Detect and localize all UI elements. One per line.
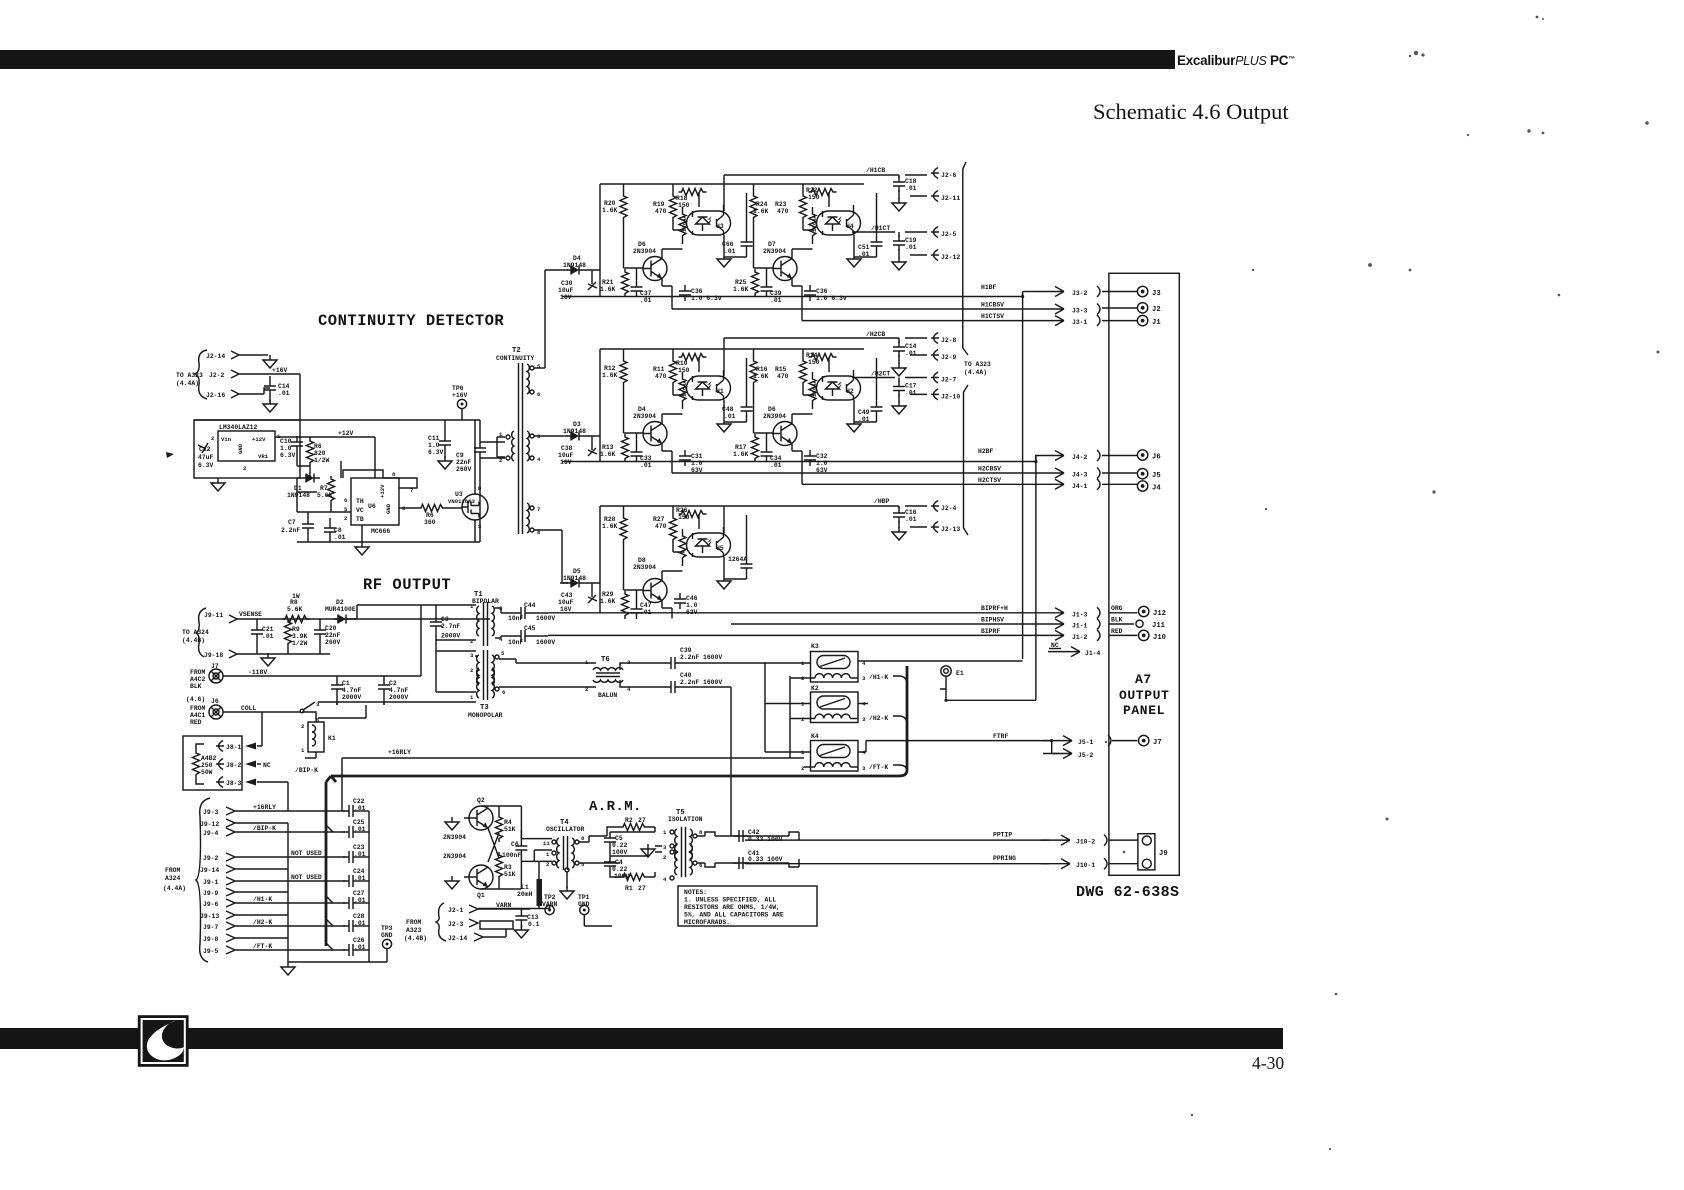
bracket to A323 lower group bbox=[964, 385, 969, 535]
svg-text:J9-13: J9-13 bbox=[200, 913, 219, 920]
svg-text:DWG 62-638S: DWG 62-638S bbox=[1076, 884, 1179, 901]
svg-text:J5-1: J5-1 bbox=[1078, 739, 1094, 746]
svg-text:C28: C28 bbox=[353, 913, 365, 920]
resistor R4 51K bbox=[496, 814, 503, 842]
svg-text:E1: E1 bbox=[956, 670, 964, 677]
ground between C5 C4 bbox=[641, 844, 655, 857]
jack J11 bbox=[1136, 620, 1143, 627]
svg-text:470: 470 bbox=[777, 373, 789, 380]
svg-text:2.2nF 1600V: 2.2nF 1600V bbox=[680, 679, 722, 686]
svg-text:J1-2: J1-2 bbox=[1072, 634, 1088, 641]
svg-text:A323: A323 bbox=[406, 927, 422, 934]
HB driver unit U5 circuitry bbox=[620, 506, 753, 619]
svg-text:6.3V: 6.3V bbox=[428, 449, 444, 456]
svg-text:J2-2: J2-2 bbox=[209, 372, 225, 379]
capacitor C25 .01 bbox=[343, 826, 359, 838]
svg-text:ExcaliburPLUS PC™: ExcaliburPLUS PC™ bbox=[1177, 53, 1295, 68]
resistor R9 3.9K 1/2W bbox=[285, 619, 292, 647]
H1 top rail and left rail wires bbox=[560, 184, 864, 297]
svg-text:C21: C21 bbox=[262, 626, 274, 633]
svg-text:1: 1 bbox=[470, 694, 474, 701]
svg-text:C51: C51 bbox=[858, 244, 870, 251]
svg-text:0.1: 0.1 bbox=[528, 921, 540, 928]
svg-text:1.6K: 1.6K bbox=[733, 286, 749, 293]
svg-text:H2BF: H2BF bbox=[978, 448, 994, 455]
T5 secondary coil bbox=[690, 829, 692, 859]
svg-text:C27: C27 bbox=[353, 890, 365, 897]
svg-text:820: 820 bbox=[314, 450, 326, 457]
svg-text:R16: R16 bbox=[756, 366, 768, 373]
svg-text:C14: C14 bbox=[278, 383, 290, 390]
svg-text:R28: R28 bbox=[604, 516, 616, 523]
svg-text:150: 150 bbox=[808, 194, 820, 201]
transformer T1 core bbox=[484, 602, 488, 646]
wire J2-16 to C14 bbox=[264, 376, 270, 402]
svg-text:Schematic 4.6 Output: Schematic 4.6 Output bbox=[1093, 99, 1289, 124]
svg-text:16V: 16V bbox=[560, 459, 572, 466]
wire /H1CB bbox=[724, 175, 927, 211]
capacitor C18 .01 bbox=[893, 176, 905, 192]
svg-text:/FT-K: /FT-K bbox=[253, 943, 272, 950]
wire T3 secondary to T6 balun bbox=[499, 659, 596, 687]
svg-text:/H2-K: /H2-K bbox=[869, 715, 888, 722]
connector J8-2 bbox=[216, 759, 224, 770]
svg-text:2000V: 2000V bbox=[389, 694, 408, 701]
connector J2-11 bbox=[910, 195, 927, 197]
ground at J2-14 bbox=[262, 354, 268, 356]
svg-text:D2: D2 bbox=[336, 599, 344, 606]
svg-text:R15: R15 bbox=[775, 366, 787, 373]
ground below C14b bbox=[892, 363, 906, 376]
wire K1 pins bbox=[302, 712, 316, 758]
svg-text:R19: R19 bbox=[653, 201, 665, 208]
svg-text:D3: D3 bbox=[573, 421, 581, 428]
svg-text:R2: R2 bbox=[625, 817, 633, 824]
svg-text:1.6K: 1.6K bbox=[600, 286, 616, 293]
wire +16V rail down to box top bbox=[299, 374, 301, 420]
ground below C11 bbox=[438, 456, 452, 469]
svg-text:C49: C49 bbox=[858, 409, 870, 416]
wire T5 secondary staircase output bbox=[697, 832, 799, 867]
svg-text:OSCILLATOR: OSCILLATOR bbox=[546, 826, 585, 833]
connector J8-3 bbox=[216, 777, 224, 788]
svg-text:1264A: 1264A bbox=[681, 215, 688, 232]
svg-text:2N3904: 2N3904 bbox=[633, 248, 656, 255]
svg-text:.01: .01 bbox=[334, 534, 346, 541]
svg-text:2.7nF: 2.7nF bbox=[441, 623, 460, 630]
connector J2-7 bbox=[931, 372, 939, 383]
svg-text:2N3904: 2N3904 bbox=[443, 834, 466, 841]
svg-text:A4B2: A4B2 bbox=[201, 755, 217, 762]
wire U6 top pin8 bbox=[343, 470, 417, 488]
svg-text:C9: C9 bbox=[456, 452, 464, 459]
svg-text:C26: C26 bbox=[353, 937, 365, 944]
svg-text:RF OUTPUT: RF OUTPUT bbox=[363, 576, 451, 594]
diode D5 1N9148 bbox=[567, 579, 585, 588]
svg-text:2.2nF: 2.2nF bbox=[281, 527, 300, 534]
svg-text:/HBP: /HBP bbox=[874, 498, 890, 505]
svg-text:+16V: +16V bbox=[272, 367, 288, 374]
svg-text:1.6K: 1.6K bbox=[602, 207, 618, 214]
svg-text:R12: R12 bbox=[604, 365, 616, 372]
svg-text:6.3V: 6.3V bbox=[280, 452, 296, 459]
svg-text:R21: R21 bbox=[602, 279, 614, 286]
svg-text:J10-1: J10-1 bbox=[1076, 862, 1095, 869]
svg-text:C66: C66 bbox=[722, 241, 734, 248]
svg-text:J2-5: J2-5 bbox=[941, 231, 957, 238]
H1 driver unit U3 circuitry bbox=[620, 184, 753, 297]
relay K1 bbox=[308, 722, 324, 752]
diode D4 1N9148 bbox=[567, 266, 585, 275]
svg-text:5.6K: 5.6K bbox=[317, 492, 333, 499]
svg-text:Vin: Vin bbox=[221, 436, 232, 443]
svg-text:R17: R17 bbox=[735, 444, 747, 451]
svg-text:R3: R3 bbox=[504, 864, 512, 871]
svg-text:J9-14: J9-14 bbox=[200, 867, 219, 874]
svg-text:C3: C3 bbox=[441, 616, 449, 623]
resistor R3 51K bbox=[496, 852, 503, 880]
svg-text:4-30: 4-30 bbox=[1252, 1053, 1284, 1073]
svg-text:J9-5: J9-5 bbox=[203, 948, 219, 955]
svg-text:D7: D7 bbox=[768, 241, 776, 248]
svg-text:R26: R26 bbox=[676, 507, 688, 514]
svg-text:/H1-K: /H1-K bbox=[869, 674, 888, 681]
svg-text:R4: R4 bbox=[504, 819, 512, 826]
svg-text:J8-1: J8-1 bbox=[226, 744, 242, 751]
svg-text:5: 5 bbox=[537, 363, 541, 370]
svg-text:C30: C30 bbox=[561, 280, 573, 287]
svg-text:20mH: 20mH bbox=[517, 891, 533, 898]
capacitor C46 1.0 63V bbox=[674, 593, 686, 609]
svg-text:J10-2: J10-2 bbox=[1076, 839, 1095, 846]
wire C9 to T2 primary bbox=[480, 420, 505, 542]
svg-text:NC: NC bbox=[263, 762, 271, 769]
svg-text:8: 8 bbox=[699, 829, 703, 836]
terminal E1 bbox=[941, 666, 951, 676]
svg-text:VSENSE: VSENSE bbox=[239, 611, 262, 618]
svg-text:+12V: +12V bbox=[338, 430, 354, 437]
svg-text:3.9K: 3.9K bbox=[292, 633, 308, 640]
svg-text:(4.4A): (4.4A) bbox=[163, 885, 186, 892]
svg-text:J9-3: J9-3 bbox=[203, 809, 219, 816]
svg-text:(4.4A): (4.4A) bbox=[964, 369, 987, 376]
bundle joints to rows bbox=[288, 811, 345, 962]
svg-text:FROM: FROM bbox=[190, 669, 206, 676]
capacitor C10 1.0 6.3V bbox=[291, 436, 303, 452]
svg-text:50W: 50W bbox=[201, 769, 213, 776]
svg-text:H2CBSV: H2CBSV bbox=[978, 466, 1001, 473]
svg-text:TO A323: TO A323 bbox=[176, 372, 203, 379]
svg-text:3: 3 bbox=[470, 652, 474, 659]
svg-text:1.6K: 1.6K bbox=[602, 372, 618, 379]
svg-text:K4: K4 bbox=[811, 733, 819, 740]
svg-text:J1: J1 bbox=[1152, 319, 1161, 327]
svg-text:/H2CB: /H2CB bbox=[866, 331, 885, 338]
resistor R8 5.6K 1W bbox=[282, 616, 310, 623]
transistor Q2 bbox=[469, 806, 493, 830]
svg-text:J4: J4 bbox=[1152, 485, 1161, 493]
connector J2-13 bbox=[910, 526, 927, 528]
svg-text:C22: C22 bbox=[353, 798, 365, 805]
svg-text:(4.4A): (4.4A) bbox=[176, 380, 199, 387]
footer bar bbox=[0, 1028, 1283, 1049]
svg-text:C32: C32 bbox=[816, 453, 828, 460]
svg-text:C43: C43 bbox=[561, 592, 573, 599]
svg-text:1600V: 1600V bbox=[536, 639, 555, 646]
wire +16RLY long rail bbox=[342, 676, 804, 811]
svg-text:.01: .01 bbox=[640, 297, 652, 304]
svg-text:4: 4 bbox=[663, 876, 667, 883]
svg-text:1.6K: 1.6K bbox=[600, 598, 616, 605]
svg-text:ORG: ORG bbox=[1111, 605, 1123, 612]
svg-text:J2-14: J2-14 bbox=[448, 935, 467, 942]
svg-text:51K: 51K bbox=[504, 871, 516, 878]
capacitor C19 .01 bbox=[893, 235, 905, 251]
svg-text:5.6K: 5.6K bbox=[287, 606, 303, 613]
svg-text:2000V: 2000V bbox=[441, 633, 460, 640]
svg-text:0.33 100V: 0.33 100V bbox=[748, 856, 783, 863]
phone jack J9 bbox=[1138, 834, 1155, 870]
svg-text:J4-1: J4-1 bbox=[1072, 483, 1088, 490]
connector J2-12 bbox=[910, 254, 927, 256]
capacitor C36 1.0 6.3V bbox=[679, 285, 691, 301]
svg-text:J9-7: J9-7 bbox=[203, 924, 219, 931]
svg-text:5: 5 bbox=[501, 650, 505, 657]
ground below fan bbox=[281, 962, 295, 975]
svg-text:J9-6: J9-6 bbox=[203, 901, 219, 908]
svg-text:Q1: Q1 bbox=[477, 892, 485, 899]
svg-text:D4: D4 bbox=[638, 406, 646, 413]
svg-text:1N9148: 1N9148 bbox=[563, 262, 586, 269]
svg-text:16V: 16V bbox=[560, 294, 572, 301]
svg-text:150: 150 bbox=[678, 514, 690, 521]
svg-text:K1: K1 bbox=[328, 735, 336, 742]
svg-text:D6: D6 bbox=[768, 406, 776, 413]
regulator outer wiring box bbox=[194, 420, 300, 478]
svg-text:R6: R6 bbox=[426, 512, 434, 519]
T2 primary coil bbox=[512, 431, 514, 461]
svg-text:MUR4100E: MUR4100E bbox=[325, 606, 356, 613]
jack J1 bbox=[1137, 315, 1147, 325]
svg-text:NOT USED: NOT USED bbox=[291, 850, 322, 857]
svg-text:R24: R24 bbox=[756, 201, 768, 208]
scanner specks bbox=[1105, 16, 1660, 1151]
load resistor box A4B2 250 50W bbox=[183, 736, 242, 790]
T5 primary coil bbox=[675, 829, 677, 859]
svg-text:250: 250 bbox=[201, 762, 213, 769]
svg-text:C17: C17 bbox=[905, 383, 917, 390]
svg-text:R29: R29 bbox=[602, 591, 614, 598]
svg-text:GND: GND bbox=[385, 503, 392, 514]
svg-text:C23: C23 bbox=[353, 844, 365, 851]
T1 primary coil bbox=[477, 606, 479, 636]
T2 secondary coil mid bbox=[527, 431, 529, 461]
svg-text:/BIP-K: /BIP-K bbox=[253, 825, 276, 832]
svg-text:260V: 260V bbox=[325, 639, 341, 646]
svg-text:C16: C16 bbox=[905, 509, 917, 516]
wire risers from H2 rail bbox=[672, 462, 802, 485]
svg-text:TO A323: TO A323 bbox=[964, 361, 991, 368]
svg-text:1.6K: 1.6K bbox=[753, 208, 769, 215]
svg-text:47uF: 47uF bbox=[198, 454, 214, 461]
T1 secondary coil bbox=[492, 606, 494, 636]
svg-text:150: 150 bbox=[808, 359, 820, 366]
wire K4 pins bbox=[765, 741, 907, 770]
svg-text:10uF: 10uF bbox=[558, 287, 574, 294]
svg-text:C7: C7 bbox=[288, 519, 296, 526]
resistor R1 27 bbox=[620, 874, 648, 881]
capacitor C41 0.33 100V bbox=[733, 857, 749, 869]
diode D2 MUR4100E bbox=[334, 615, 352, 624]
brace FROM A324 bbox=[196, 798, 210, 962]
svg-text:J2-9: J2-9 bbox=[941, 354, 957, 361]
svg-text:J3: J3 bbox=[1152, 290, 1161, 298]
svg-text:C40: C40 bbox=[680, 672, 692, 679]
svg-text:R14: R14 bbox=[806, 352, 818, 359]
connector J2-4 bbox=[931, 501, 939, 512]
svg-text:1: 1 bbox=[663, 829, 667, 836]
wire J2-3 J2-14 stub box bbox=[480, 921, 513, 929]
capacitor C22 .01 bbox=[343, 805, 359, 817]
wire switch throws to T3 bbox=[318, 702, 476, 718]
node H1BF riser bbox=[1022, 292, 1024, 297]
svg-text:R7: R7 bbox=[320, 485, 328, 492]
wire J8-1 to COLL node bbox=[257, 742, 288, 811]
svg-text:TP2: TP2 bbox=[544, 894, 556, 901]
jack J7 bbox=[1139, 735, 1149, 745]
connector J2-9 bbox=[910, 354, 927, 356]
svg-text:10uF: 10uF bbox=[558, 452, 574, 459]
svg-text:R9: R9 bbox=[292, 626, 300, 633]
svg-text:R20: R20 bbox=[604, 200, 616, 207]
ground Q2 bbox=[445, 817, 459, 830]
svg-text:.01: .01 bbox=[724, 248, 736, 255]
connector J2-5 bbox=[931, 227, 939, 238]
capacitor C39 2.2nF 1600V bbox=[665, 657, 681, 669]
H1 driver unit U4 circuitry bbox=[750, 184, 883, 297]
svg-text:T2: T2 bbox=[512, 347, 521, 355]
svg-text:27: 27 bbox=[638, 885, 646, 892]
svg-text:6: 6 bbox=[537, 391, 541, 398]
svg-text:C20: C20 bbox=[325, 625, 337, 632]
svg-text:10nF: 10nF bbox=[508, 615, 524, 622]
connector J5-2 bbox=[1052, 753, 1059, 755]
svg-text:TP3: TP3 bbox=[381, 925, 393, 932]
svg-text:C13: C13 bbox=[527, 914, 539, 921]
svg-text:R13: R13 bbox=[602, 444, 614, 451]
svg-text:K3: K3 bbox=[811, 643, 819, 650]
svg-text:C1: C1 bbox=[342, 680, 350, 687]
svg-text:VC: VC bbox=[356, 507, 364, 514]
notes box bbox=[678, 886, 817, 926]
svg-text:J2-12: J2-12 bbox=[941, 254, 960, 261]
diode D3 1N9148 bbox=[567, 432, 585, 441]
ground below C17 bbox=[892, 401, 906, 414]
svg-text:470: 470 bbox=[655, 208, 667, 215]
svg-text:J9-1: J9-1 bbox=[203, 879, 219, 886]
svg-text:22nF: 22nF bbox=[456, 459, 472, 466]
svg-text:J3-2: J3-2 bbox=[1072, 290, 1088, 297]
svg-text:A4C1: A4C1 bbox=[190, 712, 206, 719]
svg-text:1.0: 1.0 bbox=[280, 445, 292, 452]
svg-text:TH: TH bbox=[356, 498, 364, 505]
svg-text:MONOPOLAR: MONOPOLAR bbox=[468, 712, 503, 719]
wire COLL line bbox=[223, 712, 300, 742]
svg-text:100nF: 100nF bbox=[502, 852, 521, 859]
svg-text:2: 2 bbox=[243, 465, 247, 472]
svg-text:BALUN: BALUN bbox=[598, 692, 617, 699]
svg-text:Q2: Q2 bbox=[477, 797, 485, 804]
svg-text:C25: C25 bbox=[353, 819, 365, 826]
svg-text:J9-12: J9-12 bbox=[200, 821, 219, 828]
wire T4 secondary to isolation bbox=[579, 836, 607, 863]
T6 top coil bbox=[593, 668, 623, 670]
svg-text:J2-13: J2-13 bbox=[941, 526, 960, 533]
svg-text:+16RLY: +16RLY bbox=[253, 804, 276, 811]
svg-text:6.3V: 6.3V bbox=[198, 462, 214, 469]
svg-text:U3: U3 bbox=[716, 223, 724, 230]
T3 primary coil bbox=[477, 655, 479, 685]
connector J2-8 bbox=[931, 333, 939, 344]
svg-text:BIPHSV: BIPHSV bbox=[981, 616, 1004, 623]
svg-text:2.2nF 1600V: 2.2nF 1600V bbox=[680, 654, 722, 661]
svg-text:A.R.M.: A.R.M. bbox=[589, 799, 642, 815]
svg-text:150: 150 bbox=[678, 367, 690, 374]
jack J5 bbox=[1137, 469, 1147, 479]
svg-text:1.6K: 1.6K bbox=[600, 451, 616, 458]
wire /H1CT bbox=[852, 232, 927, 258]
svg-text:2000V: 2000V bbox=[342, 694, 361, 701]
jack J6 bbox=[1137, 450, 1147, 460]
svg-text:J1-4: J1-4 bbox=[1085, 650, 1101, 657]
capacitor C36b 1.0 6.3V bbox=[804, 285, 816, 301]
connector J2-6 bbox=[931, 168, 939, 179]
svg-text:+12V: +12V bbox=[252, 436, 266, 443]
svg-text:470: 470 bbox=[777, 208, 789, 215]
svg-text:+12V: +12V bbox=[379, 484, 386, 498]
svg-text:3: 3 bbox=[862, 675, 866, 682]
svg-text:J2: J2 bbox=[1152, 306, 1161, 314]
wire T6 pin3 out bbox=[620, 663, 766, 670]
svg-text:J6: J6 bbox=[1152, 454, 1161, 462]
svg-text:U6: U6 bbox=[368, 503, 376, 510]
svg-text:R11: R11 bbox=[653, 366, 665, 373]
svg-text:J3-3: J3-3 bbox=[1072, 308, 1088, 315]
ground below U6 bbox=[355, 542, 369, 555]
svg-text:J1-1: J1-1 bbox=[1072, 623, 1088, 630]
svg-text:C14: C14 bbox=[905, 343, 917, 350]
ground below C18 bbox=[892, 198, 906, 211]
svg-text:.01: .01 bbox=[905, 350, 917, 357]
transformer T6 core bbox=[596, 673, 620, 677]
svg-text:H2CTSV: H2CTSV bbox=[978, 477, 1001, 484]
capacitor C28 .01 bbox=[343, 920, 359, 932]
svg-text:J2-8: J2-8 bbox=[941, 337, 957, 344]
svg-text:J9-18: J9-18 bbox=[204, 652, 223, 659]
svg-text:TP6: TP6 bbox=[452, 385, 464, 392]
svg-text:FROM: FROM bbox=[190, 705, 206, 712]
wire T2 pin3 to block2 feed bbox=[534, 435, 560, 437]
svg-text:1W: 1W bbox=[292, 593, 300, 600]
svg-text:R23: R23 bbox=[775, 201, 787, 208]
svg-text:K2: K2 bbox=[811, 685, 819, 692]
svg-text:FROM: FROM bbox=[406, 919, 422, 926]
svg-text:J2-1: J2-1 bbox=[448, 907, 464, 914]
svg-text:.01: .01 bbox=[278, 390, 290, 397]
svg-text:D8: D8 bbox=[638, 557, 646, 564]
svg-text:H1CTSV: H1CTSV bbox=[981, 313, 1004, 320]
svg-text:16V: 16V bbox=[560, 606, 572, 613]
